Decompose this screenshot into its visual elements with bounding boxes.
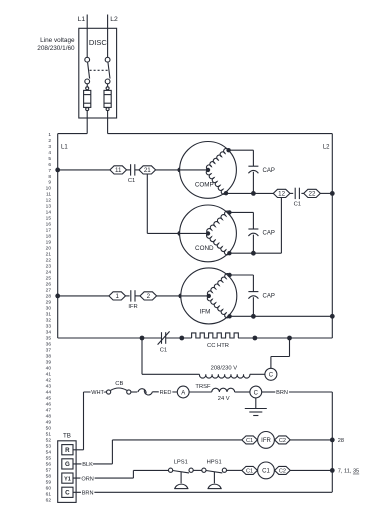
svg-text:1: 1 [48, 132, 51, 138]
connector C2 [275, 466, 291, 474]
svg-text:24: 24 [46, 270, 52, 276]
svg-text:47: 47 [46, 408, 52, 414]
svg-text:BRN: BRN [82, 491, 94, 497]
junction [179, 336, 184, 341]
wire COMP common to terminal 12 [226, 192, 273, 194]
svg-text:5: 5 [48, 156, 51, 162]
motor IFM (indoor fan motor) [181, 268, 237, 324]
wire IFM common to L2 bus [230, 315, 333, 317]
svg-text:DISC: DISC [89, 38, 108, 47]
wire BRN bus down right side [331, 392, 333, 492]
svg-text:28: 28 [338, 438, 344, 444]
terminal block TB enclosure [58, 441, 76, 503]
wire BLK riser [111, 440, 113, 464]
svg-text:57: 57 [46, 467, 52, 473]
terminal 2 [140, 292, 157, 300]
svg-text:21: 21 [144, 167, 151, 174]
wire COMP aux to CAP [229, 149, 254, 151]
svg-text:12: 12 [278, 190, 285, 197]
svg-text:R: R [65, 447, 70, 454]
wire L1 bus to contact C1 terminal 11 [58, 169, 110, 171]
fan capacitor CAP (IFM) [248, 291, 258, 293]
wire HPS1 to C coil [227, 469, 242, 471]
svg-text:24 V: 24 V [218, 396, 230, 402]
svg-text:3: 3 [48, 144, 51, 150]
svg-text:28: 28 [46, 294, 52, 300]
svg-text:BLK: BLK [82, 462, 93, 468]
wire [127, 169, 131, 171]
wire L1 bus to relay contact IFR [58, 295, 110, 297]
svg-text:29: 29 [46, 300, 52, 306]
svg-text:WHT: WHT [91, 390, 104, 396]
wire to COND [147, 232, 180, 234]
wire primary to plug C [250, 373, 265, 375]
svg-text:C2: C2 [279, 438, 286, 444]
wire heater to L2 bus corner [238, 337, 332, 339]
svg-text:CAP: CAP [263, 168, 275, 174]
wire C coil to BRN bus [290, 469, 332, 471]
DISC switch L2 upper terminal [105, 57, 110, 62]
svg-text:1: 1 [115, 293, 119, 300]
main box top edge left of L1 tap [58, 133, 87, 135]
connector C1 [242, 436, 258, 444]
svg-text:Line voltage: Line voltage [40, 37, 75, 44]
wire up to terminal 12 [280, 198, 282, 254]
fuse F2 in L2 leg [107, 84, 109, 87]
wire secondary to plug C [235, 391, 250, 393]
svg-text:59: 59 [46, 479, 52, 485]
svg-text:11: 11 [46, 192, 51, 198]
svg-text:IFR: IFR [128, 304, 137, 310]
svg-text:39: 39 [46, 360, 52, 366]
wire L1 supply drop into DISC [86, 15, 88, 58]
svg-text:53: 53 [46, 443, 52, 449]
terminal R [62, 445, 73, 455]
svg-text:7: 7 [48, 168, 51, 174]
IFM common node [227, 314, 231, 318]
wire [131, 391, 137, 393]
svg-text:35: 35 [46, 336, 52, 342]
circuit breaker CB terminal [107, 390, 111, 394]
svg-text:C1: C1 [160, 347, 167, 353]
svg-text:19: 19 [46, 240, 52, 246]
wire COND common to terminal 12 drop [229, 252, 281, 254]
svg-text:50: 50 [46, 426, 52, 432]
wire WHT [84, 391, 107, 393]
svg-text:40: 40 [46, 366, 52, 372]
svg-text:COMP: COMP [195, 181, 214, 188]
svg-text:32: 32 [46, 318, 52, 324]
svg-text:C1: C1 [246, 468, 253, 474]
plug connector A [177, 386, 189, 398]
svg-text:22: 22 [46, 258, 52, 264]
svg-text:C: C [254, 390, 259, 396]
svg-text:C: C [65, 490, 70, 497]
svg-text:ORN: ORN [81, 476, 93, 482]
svg-text:9: 9 [48, 180, 51, 186]
terminal 22 [304, 189, 321, 197]
junction CAP bottom [251, 251, 256, 256]
svg-text:27: 27 [46, 288, 52, 294]
DISC switch L1 lower terminal [85, 79, 90, 84]
IFM run winding [207, 274, 229, 296]
svg-text:10: 10 [46, 186, 52, 192]
svg-text:62: 62 [46, 497, 52, 503]
svg-text:208/230/1/60: 208/230/1/60 [37, 45, 75, 52]
wire terminal 21 to COMP [156, 169, 180, 171]
wire to primary winding [142, 373, 200, 375]
wire [166, 337, 192, 339]
terminal 1 [109, 292, 126, 300]
svg-text:7, 11, 35: 7, 11, 35 [338, 469, 359, 475]
svg-text:C1: C1 [246, 438, 253, 444]
IFM start winding [207, 296, 229, 318]
svg-text:RED: RED [160, 390, 172, 396]
svg-text:Y1: Y1 [64, 476, 71, 482]
svg-text:56: 56 [46, 461, 52, 467]
svg-text:C1: C1 [294, 202, 301, 208]
relay coil IFR [258, 432, 275, 449]
svg-text:TB: TB [63, 432, 71, 439]
junction at COND terminal [177, 231, 182, 236]
contactor contact C1 (NO) L2 side [294, 188, 296, 199]
COND run winding [207, 211, 230, 233]
svg-text:TRSF: TRSF [195, 384, 211, 390]
svg-text:61: 61 [46, 491, 52, 497]
circuit breaker CB element [111, 388, 127, 390]
svg-text:A: A [181, 390, 185, 396]
svg-text:13: 13 [46, 204, 52, 210]
transformer TRSF secondary winding [212, 388, 235, 392]
svg-text:CB: CB [115, 381, 123, 387]
terminal Y1 [62, 473, 73, 483]
wire [135, 169, 139, 171]
fuse F1 in L1 leg [86, 84, 88, 87]
IFM aux node [227, 273, 231, 277]
transformer TRSF primary winding [199, 374, 249, 378]
DISC switch L1 blade [88, 63, 90, 79]
wire terminal 21 node down to COND [146, 174, 148, 233]
wire RED [152, 391, 177, 393]
junction on L2 bus line 31 [330, 314, 335, 319]
main box top edge right of L2 tap [108, 133, 333, 135]
svg-text:17: 17 [46, 228, 52, 234]
svg-text:208/230 V: 208/230 V [211, 365, 238, 371]
svg-text:21: 21 [46, 252, 52, 258]
svg-text:C1: C1 [128, 178, 135, 184]
DISC mechanical tie (dashed) [90, 69, 108, 71]
svg-text:22: 22 [309, 190, 316, 197]
contactor coil C1 [258, 462, 275, 479]
svg-text:C: C [269, 373, 274, 379]
wire G BLK [73, 463, 112, 465]
junction line 51 [330, 438, 335, 443]
wire terminal 22 to L2 bus [320, 192, 332, 194]
wire L2 supply drop into DISC [107, 15, 109, 58]
wire terminal R riser (WHT) [83, 392, 85, 450]
svg-text:12: 12 [46, 198, 52, 204]
junction on L1 bus line 28 [55, 294, 60, 299]
wire plug A to secondary [189, 391, 212, 393]
terminal C [62, 487, 73, 497]
svg-text:2: 2 [147, 293, 151, 300]
wire LPS1 to HPS1 [193, 469, 202, 471]
wire heater junction down to transformer primary [141, 338, 143, 374]
COND common node [227, 251, 231, 255]
ground symbol [255, 398, 257, 409]
svg-text:16: 16 [46, 222, 52, 228]
svg-text:C1: C1 [262, 469, 270, 475]
junction transformer return [287, 336, 292, 341]
svg-text:31: 31 [46, 312, 52, 318]
svg-text:36: 36 [46, 342, 52, 348]
junction at IFM terminal [178, 294, 183, 299]
svg-text:2: 2 [48, 138, 51, 144]
wire [290, 192, 293, 194]
junction line 56 [330, 468, 335, 473]
COMP common terminal node [224, 191, 228, 195]
svg-text:46: 46 [46, 402, 52, 408]
svg-text:34: 34 [46, 330, 52, 336]
svg-text:37: 37 [46, 348, 52, 354]
connector C2 [275, 436, 291, 444]
wire [301, 192, 303, 194]
junction CAP bottom [251, 191, 256, 196]
svg-text:COND: COND [195, 245, 214, 252]
NC slash of contact C1 [158, 331, 170, 344]
svg-text:51: 51 [46, 431, 52, 437]
main box left edge (L1 bus) [57, 134, 59, 338]
wire C BRN bottom run [73, 491, 332, 493]
wire IFR coil to BRN bus [290, 439, 332, 441]
junction on L1 bus line 7 [55, 168, 60, 173]
junction at COMP terminal [177, 168, 182, 173]
svg-text:38: 38 [46, 354, 52, 360]
terminal G [62, 459, 73, 469]
wire ORN riser [132, 470, 134, 478]
svg-text:18: 18 [46, 234, 52, 240]
disconnect DISC enclosure [79, 28, 117, 118]
svg-text:4: 4 [48, 150, 51, 156]
svg-text:6: 6 [48, 162, 51, 168]
contactor contact C1 (NO) [130, 164, 132, 175]
contactor contact C1 (NC) for crankcase heater [161, 332, 163, 344]
svg-text:49: 49 [46, 420, 52, 426]
svg-text:G: G [65, 461, 70, 468]
svg-text:IFM: IFM [200, 309, 211, 316]
svg-text:44: 44 [46, 390, 52, 396]
svg-text:58: 58 [46, 473, 52, 479]
svg-text:43: 43 [46, 384, 52, 390]
circuit breaker CB terminal [127, 390, 131, 394]
svg-text:CAP: CAP [263, 293, 275, 299]
svg-text:IFR: IFR [261, 438, 271, 444]
terminal 21 [139, 166, 156, 174]
connector C1 [242, 466, 258, 474]
DISC switch L2 blade [108, 63, 110, 79]
motor COND (condenser fan) [180, 205, 237, 262]
svg-text:30: 30 [46, 306, 52, 312]
wire terminal 2 to IFM [157, 295, 181, 297]
junction [253, 336, 258, 341]
svg-text:8: 8 [48, 174, 51, 180]
junction CAP bottom [251, 314, 256, 319]
svg-text:L1: L1 [78, 16, 86, 23]
run capacitor CAP (COMP) [248, 165, 258, 167]
svg-text:26: 26 [46, 282, 52, 288]
svg-text:48: 48 [46, 414, 52, 420]
terminal 11 [110, 166, 127, 174]
svg-text:HPS1: HPS1 [207, 460, 222, 466]
wire IFM aux to CAP [230, 274, 254, 276]
wire BRN [262, 391, 276, 393]
svg-text:L1: L1 [61, 144, 68, 150]
svg-text:25: 25 [46, 276, 52, 282]
COND start winding [207, 233, 230, 254]
main box bottom edge / heater circuit [58, 337, 162, 339]
svg-text:L2: L2 [110, 16, 118, 23]
wire COND aux to CAP [229, 211, 253, 213]
DISC switch L1 upper terminal [85, 57, 90, 62]
plug connection symbol [138, 389, 146, 394]
svg-text:41: 41 [46, 372, 52, 378]
main box right edge (L2 bus) [331, 134, 333, 338]
svg-text:23: 23 [46, 264, 52, 270]
terminal 12 [273, 189, 290, 197]
svg-text:20: 20 [46, 246, 52, 252]
svg-text:15: 15 [46, 216, 52, 222]
COMP aux terminal node [226, 148, 230, 152]
fan capacitor CAP (COND) [248, 228, 258, 230]
svg-text:45: 45 [46, 396, 52, 402]
wire [135, 295, 140, 297]
DISC switch L2 lower terminal [105, 79, 110, 84]
svg-text:L2: L2 [323, 144, 330, 150]
COMP run winding [206, 148, 228, 169]
crankcase heater CC HTR element [192, 333, 239, 338]
svg-text:42: 42 [46, 378, 52, 384]
svg-text:11: 11 [115, 167, 122, 174]
wire to IFR coil [112, 439, 241, 441]
wire Y1 ORN [73, 477, 133, 479]
svg-text:54: 54 [46, 449, 52, 455]
wire [126, 295, 130, 297]
svg-text:C2: C2 [279, 468, 286, 474]
COND aux node [227, 210, 231, 214]
svg-text:LPS1: LPS1 [174, 460, 188, 466]
svg-text:52: 52 [46, 437, 52, 443]
svg-text:55: 55 [46, 455, 52, 461]
wire R to WHT riser [73, 449, 84, 451]
svg-text:CC HTR: CC HTR [207, 343, 229, 349]
plug connector C (primary) [265, 368, 277, 380]
motor COMP (compressor) [180, 142, 237, 199]
junction on L2 bus line 11 [330, 191, 335, 196]
svg-text:60: 60 [46, 485, 52, 491]
svg-text:BRN: BRN [276, 390, 288, 396]
wire to LPS1 [133, 469, 168, 471]
svg-text:33: 33 [46, 324, 52, 330]
svg-text:14: 14 [46, 210, 52, 216]
svg-text:CAP: CAP [263, 231, 275, 237]
plug connector C (secondary) [250, 386, 262, 398]
COMP start winding [206, 170, 226, 194]
wire plug C up to heater line [270, 357, 272, 369]
junction heater feed [140, 336, 145, 341]
fan relay contact IFR (NO) [130, 290, 132, 301]
